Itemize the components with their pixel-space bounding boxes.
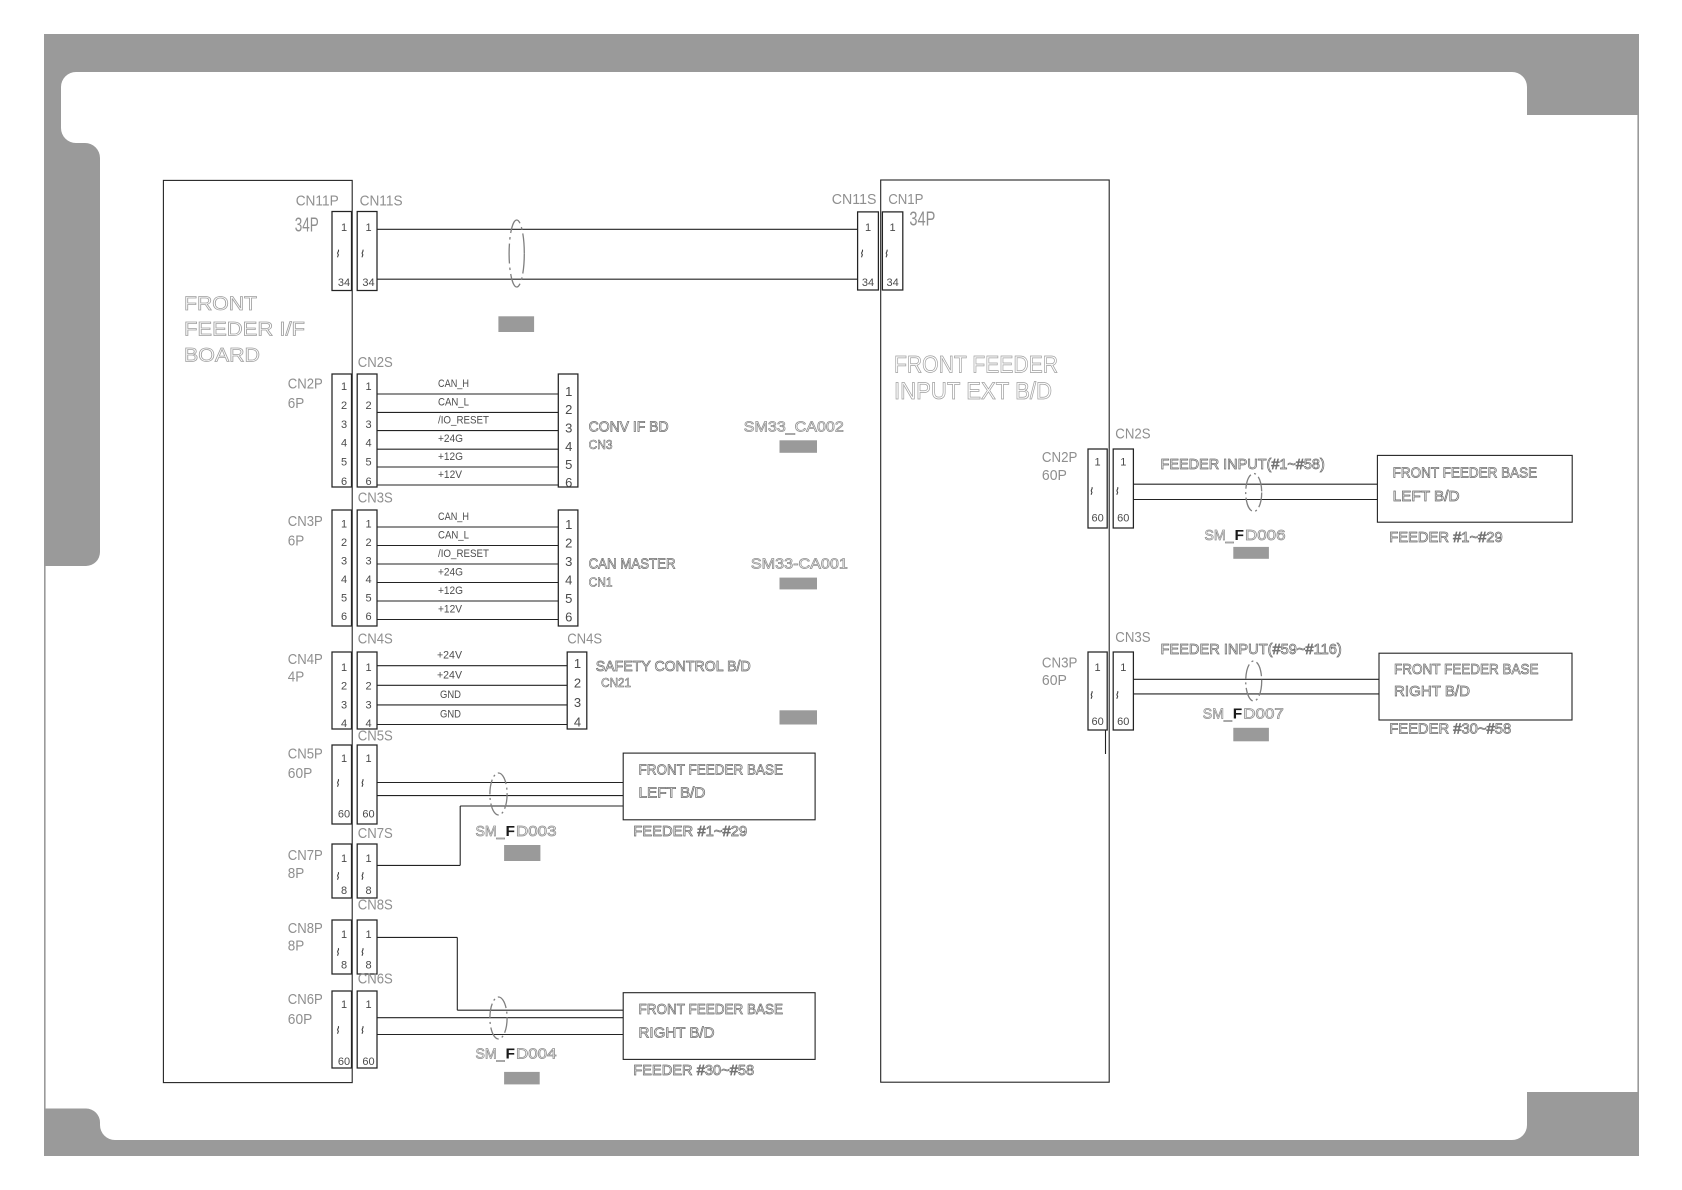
svg-text:1: 1	[341, 662, 347, 674]
svg-text:F: F	[506, 1046, 516, 1063]
svg-text:1: 1	[890, 222, 896, 234]
svg-text:INPUT EXT B/D: INPUT EXT B/D	[894, 378, 1052, 405]
svg-text:2: 2	[565, 535, 572, 550]
svg-text:F: F	[506, 823, 516, 840]
svg-text:D004: D004	[516, 1046, 557, 1063]
svg-text:5: 5	[565, 591, 572, 606]
svg-text:2: 2	[365, 537, 371, 549]
svg-text:1: 1	[565, 517, 572, 532]
svg-text:3: 3	[341, 556, 347, 568]
svg-text:1: 1	[1095, 662, 1101, 674]
svg-text:3: 3	[365, 419, 371, 431]
svg-text:60: 60	[338, 809, 350, 821]
svg-text:SM_: SM_	[1203, 705, 1233, 722]
svg-text:FRONT: FRONT	[184, 294, 257, 315]
svg-text:60: 60	[338, 1056, 350, 1068]
svg-text:2: 2	[341, 681, 347, 693]
svg-text:FRONT FEEDER BASE: FRONT FEEDER BASE	[639, 1001, 784, 1018]
svg-text:FEEDER INPUT(#1~#58): FEEDER INPUT(#1~#58)	[1161, 456, 1325, 473]
svg-text:6P: 6P	[288, 395, 305, 412]
svg-text:CN3S: CN3S	[358, 490, 393, 507]
svg-text:34: 34	[862, 277, 874, 289]
svg-text:1: 1	[565, 384, 572, 399]
svg-text:RIGHT B/D: RIGHT B/D	[639, 1024, 715, 1041]
svg-text:60P: 60P	[1042, 467, 1067, 484]
svg-text:4: 4	[365, 574, 371, 586]
svg-text:3: 3	[574, 695, 581, 710]
svg-text:SAFETY CONTROL B/D: SAFETY CONTROL B/D	[596, 658, 751, 675]
svg-text:34P: 34P	[295, 215, 319, 237]
svg-text:CN1P: CN1P	[888, 191, 923, 208]
svg-text:CN21: CN21	[601, 675, 631, 690]
svg-text:2: 2	[365, 400, 371, 412]
svg-text:CN2S: CN2S	[358, 354, 393, 371]
svg-text:1: 1	[365, 999, 371, 1011]
svg-text:CN5P: CN5P	[288, 745, 323, 762]
svg-text:4: 4	[341, 574, 347, 586]
svg-text:FRONT FEEDER BASE: FRONT FEEDER BASE	[1393, 464, 1538, 481]
svg-text:1: 1	[341, 999, 347, 1011]
svg-text:1: 1	[365, 222, 371, 234]
svg-text:60: 60	[362, 809, 374, 821]
svg-text:3: 3	[341, 699, 347, 711]
svg-text:SM_: SM_	[476, 1046, 506, 1063]
svg-text:CN6S: CN6S	[358, 971, 393, 988]
svg-text:+12G: +12G	[438, 451, 463, 463]
svg-text:60P: 60P	[1042, 672, 1067, 689]
svg-text:CN4P: CN4P	[288, 651, 323, 668]
svg-text:4: 4	[341, 438, 347, 450]
svg-text:+24V: +24V	[437, 669, 463, 681]
svg-text:/IO_RESET: /IO_RESET	[438, 548, 489, 560]
svg-text:CN11P: CN11P	[296, 193, 339, 210]
svg-text:4: 4	[341, 718, 347, 730]
svg-text:1: 1	[365, 753, 371, 765]
svg-text:2: 2	[341, 400, 347, 412]
svg-text:1: 1	[1120, 662, 1126, 674]
svg-text:1: 1	[341, 929, 347, 941]
svg-text:+12G: +12G	[438, 585, 463, 597]
svg-text:CN11S: CN11S	[832, 191, 877, 208]
svg-text:CN1: CN1	[589, 575, 613, 590]
svg-text:6: 6	[365, 476, 371, 488]
svg-text:4P: 4P	[288, 669, 305, 686]
svg-text:CN5S: CN5S	[358, 728, 393, 745]
svg-text:CN8P: CN8P	[288, 920, 323, 937]
svg-text:8: 8	[365, 885, 371, 897]
svg-text:CAN_H: CAN_H	[438, 378, 469, 390]
svg-text:CN3P: CN3P	[1042, 654, 1078, 671]
svg-text:CN3: CN3	[589, 437, 613, 452]
svg-text:FEEDER #30~#58: FEEDER #30~#58	[633, 1062, 754, 1079]
svg-text:CN3P: CN3P	[288, 513, 323, 530]
svg-text:CN3S: CN3S	[1115, 629, 1150, 646]
svg-text:1: 1	[365, 381, 371, 393]
svg-text:CN11S: CN11S	[360, 193, 403, 210]
svg-text:1: 1	[341, 222, 347, 234]
svg-text:4: 4	[574, 715, 581, 730]
svg-text:3: 3	[565, 554, 572, 569]
svg-text:6: 6	[565, 475, 572, 490]
svg-text:CN7P: CN7P	[288, 847, 323, 864]
svg-text:2: 2	[574, 676, 581, 691]
svg-text:60P: 60P	[288, 765, 313, 782]
svg-text:FEEDER #1~#29: FEEDER #1~#29	[1389, 529, 1503, 546]
svg-text:F: F	[1235, 527, 1245, 544]
svg-text:CN2S: CN2S	[1115, 426, 1150, 443]
svg-text:6: 6	[341, 476, 347, 488]
svg-text:60: 60	[1091, 716, 1103, 728]
svg-text:3: 3	[365, 699, 371, 711]
svg-text:1: 1	[365, 929, 371, 941]
svg-text:+24V: +24V	[437, 650, 463, 662]
svg-text:8P: 8P	[288, 865, 305, 882]
svg-text:60: 60	[1117, 513, 1129, 525]
svg-text:FEEDER #1~#29: FEEDER #1~#29	[633, 823, 747, 840]
svg-text:6P: 6P	[288, 533, 305, 550]
svg-text:1: 1	[865, 222, 871, 234]
svg-text:D007: D007	[1243, 705, 1284, 722]
svg-text:5: 5	[341, 593, 347, 605]
svg-text:SM33-CA001: SM33-CA001	[751, 556, 848, 573]
svg-text:CN2P: CN2P	[1042, 449, 1078, 466]
svg-text:+24G: +24G	[438, 567, 463, 579]
svg-text:CN4S: CN4S	[567, 631, 602, 648]
svg-text:FRONT FEEDER: FRONT FEEDER	[894, 351, 1058, 378]
svg-text:CN8S: CN8S	[358, 897, 393, 914]
svg-text:2: 2	[365, 681, 371, 693]
svg-text:CONV IF BD: CONV IF BD	[589, 418, 669, 435]
svg-text:1: 1	[341, 381, 347, 393]
svg-text:FEEDER INPUT(#59~#116): FEEDER INPUT(#59~#116)	[1161, 641, 1342, 658]
svg-text:5: 5	[341, 457, 347, 469]
svg-text:SM33_CA002: SM33_CA002	[744, 418, 844, 435]
svg-text:5: 5	[565, 457, 572, 472]
svg-text:D006: D006	[1245, 527, 1286, 544]
svg-text:CN4S: CN4S	[358, 631, 393, 648]
svg-text:3: 3	[341, 419, 347, 431]
svg-text:CAN_L: CAN_L	[438, 396, 469, 408]
svg-text:1: 1	[341, 853, 347, 865]
svg-text:/IO_RESET: /IO_RESET	[438, 415, 489, 427]
svg-text:CAN_H: CAN_H	[438, 511, 469, 523]
svg-text:GND: GND	[440, 709, 461, 721]
svg-text:FEEDER I/F: FEEDER I/F	[184, 320, 305, 341]
svg-text:60: 60	[362, 1056, 374, 1068]
svg-text:2: 2	[341, 537, 347, 549]
svg-text:3: 3	[565, 420, 572, 435]
svg-text:1: 1	[341, 753, 347, 765]
svg-text:3: 3	[365, 556, 371, 568]
svg-text:FRONT FEEDER BASE: FRONT FEEDER BASE	[639, 762, 784, 779]
svg-text:34: 34	[362, 277, 374, 289]
svg-text:4: 4	[565, 439, 572, 454]
svg-text:CN6P: CN6P	[288, 991, 323, 1008]
svg-text:5: 5	[365, 457, 371, 469]
svg-text:CN7S: CN7S	[358, 825, 393, 842]
svg-text:6: 6	[341, 611, 347, 623]
svg-text:5: 5	[365, 593, 371, 605]
svg-text:1: 1	[365, 662, 371, 674]
svg-text:60: 60	[1091, 513, 1103, 525]
svg-text:LEFT B/D: LEFT B/D	[639, 785, 706, 802]
svg-text:4: 4	[365, 438, 371, 450]
svg-text:RIGHT B/D: RIGHT B/D	[1394, 683, 1470, 700]
svg-text:6: 6	[365, 611, 371, 623]
svg-text:+12V: +12V	[438, 604, 463, 616]
svg-text:GND: GND	[440, 689, 461, 701]
svg-text:SM_: SM_	[1205, 527, 1235, 544]
svg-text:1: 1	[1095, 457, 1101, 469]
svg-text:D003: D003	[516, 823, 557, 840]
svg-text:CAN_L: CAN_L	[438, 530, 469, 542]
svg-text:BOARD: BOARD	[184, 346, 260, 367]
svg-text:8: 8	[341, 885, 347, 897]
svg-text:34: 34	[338, 277, 350, 289]
svg-text:1: 1	[365, 519, 371, 531]
svg-text:1: 1	[574, 656, 581, 671]
svg-text:CN2P: CN2P	[288, 376, 323, 393]
svg-text:8: 8	[341, 960, 347, 972]
svg-text:8P: 8P	[288, 938, 305, 955]
svg-text:60P: 60P	[288, 1011, 313, 1028]
svg-text:34: 34	[886, 277, 898, 289]
svg-text:LEFT B/D: LEFT B/D	[1393, 488, 1460, 505]
svg-text:+12V: +12V	[438, 469, 463, 481]
svg-text:FRONT FEEDER BASE: FRONT FEEDER BASE	[1394, 661, 1539, 678]
svg-text:4: 4	[565, 572, 572, 587]
svg-text:1: 1	[341, 519, 347, 531]
svg-text:SM_: SM_	[476, 823, 506, 840]
svg-text:1: 1	[365, 853, 371, 865]
svg-text:F: F	[1233, 705, 1243, 722]
svg-text:6: 6	[565, 609, 572, 624]
svg-text:2: 2	[565, 402, 572, 417]
svg-text:34P: 34P	[909, 209, 935, 231]
svg-text:CAN MASTER: CAN MASTER	[589, 556, 676, 573]
svg-text:+24G: +24G	[438, 433, 463, 445]
svg-text:FEEDER #30~#58: FEEDER #30~#58	[1389, 721, 1511, 738]
svg-text:60: 60	[1117, 716, 1129, 728]
svg-text:1: 1	[1120, 457, 1126, 469]
